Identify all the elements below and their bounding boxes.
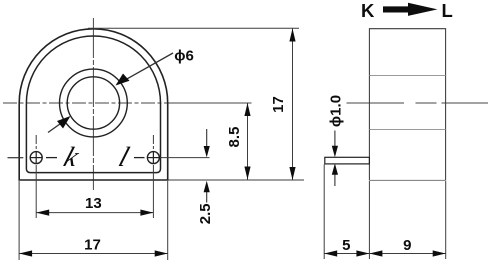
svg-text:K: K bbox=[361, 0, 375, 21]
svg-text:L: L bbox=[442, 0, 453, 21]
svg-text:8.5: 8.5 bbox=[226, 127, 243, 148]
svg-text:9: 9 bbox=[403, 237, 411, 254]
svg-text:ϕ1.0: ϕ1.0 bbox=[327, 95, 344, 127]
svg-text:5: 5 bbox=[342, 237, 350, 254]
svg-text:17: 17 bbox=[270, 96, 287, 113]
svg-text:2.5: 2.5 bbox=[197, 203, 214, 224]
svg-text:17: 17 bbox=[84, 237, 101, 254]
svg-text:ϕ6: ϕ6 bbox=[174, 48, 194, 65]
svg-text:13: 13 bbox=[85, 195, 102, 212]
